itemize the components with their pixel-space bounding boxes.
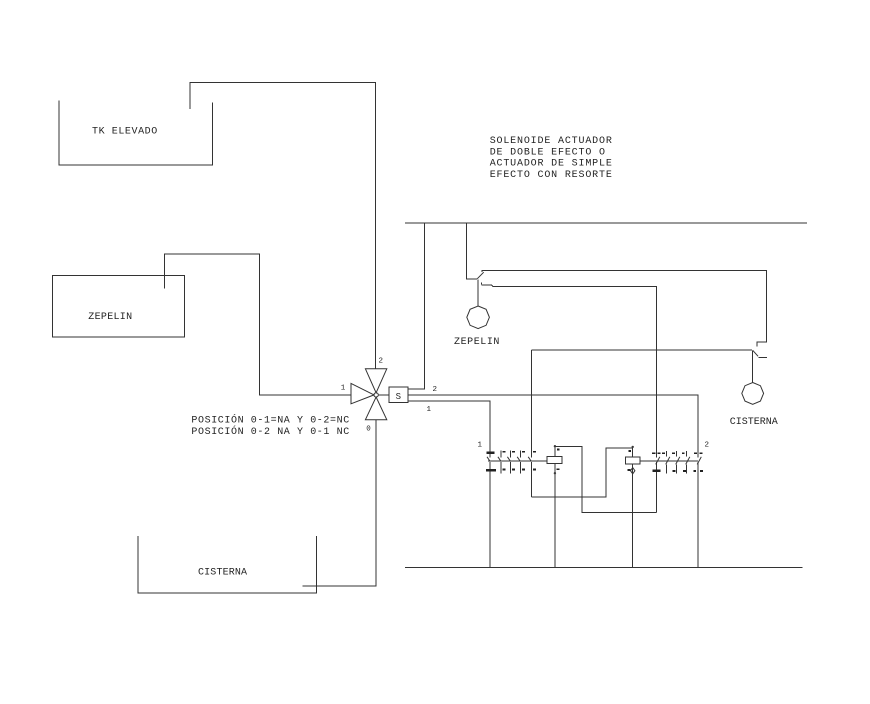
wire: coil K2 top to left contact 5 bottom — [531, 448, 632, 497]
contact R1 — [652, 453, 660, 471]
wire: cisterna switch to left contact 5 — [530, 350, 532, 458]
svg-text:CISTERNA: CISTERNA — [198, 567, 247, 578]
float switch ZEPELIN: upper contact tick — [481, 270, 483, 272]
right contact group linkage — [640, 460, 698, 462]
svg-text:ZEPELIN: ZEPELIN — [88, 312, 132, 323]
pipe: valve port 0 to tank CISTERNA — [302, 420, 376, 586]
svg-text:S: S — [396, 392, 401, 402]
contact L5 — [528, 452, 536, 470]
float switch CISTERNA: blade — [753, 350, 758, 356]
svg-text:POSICIÓN 0-2 NA Y 0-1 NC: POSICIÓN 0-2 NA Y 0-1 NC — [191, 424, 349, 438]
relay coil K1 — [547, 457, 562, 464]
svg-text:DE DOBLE EFECTO O: DE DOBLE EFECTO O — [490, 147, 606, 158]
wire A: zepelin switch upper to cisterna switch — [482, 271, 767, 347]
valve V1 center circle — [374, 393, 378, 397]
svg-text:1: 1 — [341, 384, 346, 392]
coil K2 top terminal — [632, 447, 634, 457]
valve V1 (3-way) top triangle — [365, 369, 386, 393]
tank CISTERNA — [138, 536, 317, 593]
coil K1 pin label a — [557, 449, 560, 451]
contact R3 — [672, 451, 686, 473]
float switch CISTERNA: float stem — [752, 350, 754, 382]
wire: solenoid feed from top bus — [408, 223, 424, 389]
svg-text:2: 2 — [433, 386, 438, 394]
contact R2 — [662, 451, 675, 473]
contact L3 — [507, 450, 515, 473]
solenoid S box — [389, 387, 408, 402]
valve V1 left triangle — [351, 383, 374, 403]
coil K2 bottom terminal to bottom bus — [632, 464, 634, 568]
wire node 1: solenoid to down — [408, 401, 490, 457]
wire B: zepelin switch lower to right contact group — [482, 285, 657, 458]
float switch ZEPELIN: float stem — [477, 279, 479, 306]
coil K1 pin label b — [556, 468, 559, 470]
float switch ZEPELIN: feed from bus — [467, 223, 478, 279]
contact R5 — [694, 453, 703, 471]
coil K2 pin label a — [628, 450, 631, 452]
float ball CISTERNA — [742, 383, 764, 405]
svg-text:ACTUADOR DE SIMPLE: ACTUADOR DE SIMPLE — [490, 159, 613, 170]
pipe: ZEPELIN to valve port 1 — [165, 254, 351, 395]
svg-text:TK ELEVADO: TK ELEVADO — [92, 126, 158, 137]
wire B lower segment — [655, 462, 657, 513]
wire node 2 lower segment to bottom bus — [697, 462, 699, 568]
tank TK ELEVADO — [59, 100, 213, 165]
top supply bus — [405, 222, 807, 224]
wire node 1 lower segment to bottom bus — [489, 462, 491, 568]
wire: left contact 5 bottom to loop — [530, 462, 532, 497]
svg-text:EFECTO CON RESORTE: EFECTO CON RESORTE — [490, 170, 613, 181]
contact L2 — [498, 450, 506, 473]
coil K1 bottom terminal to bottom bus — [554, 463, 556, 567]
contact R4 — [682, 451, 696, 473]
float switch CISTERNA: lower contact — [758, 357, 767, 359]
contact L4 — [517, 450, 525, 473]
wire: coil K1 top to right contact group bottom — [555, 447, 657, 513]
relay coil K2 — [626, 457, 641, 464]
svg-text:2: 2 — [705, 441, 710, 449]
svg-text:ZEPELIN: ZEPELIN — [454, 337, 500, 348]
svg-text:POSICIÓN 0-1=NA Y 0-2=NC: POSICIÓN 0-1=NA Y 0-2=NC — [191, 412, 349, 426]
float ball ZEPELIN — [467, 306, 490, 329]
svg-text:1: 1 — [478, 441, 483, 449]
svg-text:CISTERNA: CISTERNA — [730, 417, 778, 428]
wire node 2: solenoid to right — [408, 395, 698, 457]
float switch CISTERNA: wire from left contact group — [531, 349, 752, 351]
coil K2 bottom diamond mark — [631, 468, 635, 474]
float switch ZEPELIN: lower contact tick — [481, 282, 483, 284]
coil K2 pin label b — [627, 469, 630, 471]
bottom supply bus — [405, 567, 803, 569]
svg-text:0: 0 — [366, 425, 371, 433]
float switch ZEPELIN: blade — [477, 272, 484, 279]
contact L1 — [486, 450, 496, 473]
left contact group linkage — [488, 460, 547, 462]
coil K1 top terminal — [554, 446, 556, 456]
pipe: TK ELEVADO to valve port 2 — [190, 83, 376, 369]
svg-text:1: 1 — [427, 406, 432, 414]
wire: valve circle to solenoid — [378, 394, 389, 396]
svg-text:SOLENOIDE ACTUADOR: SOLENOIDE ACTUADOR — [490, 136, 613, 147]
svg-text:2: 2 — [379, 358, 384, 366]
valve V1 bottom triangle — [365, 397, 386, 420]
tank ZEPELIN — [52, 275, 184, 337]
